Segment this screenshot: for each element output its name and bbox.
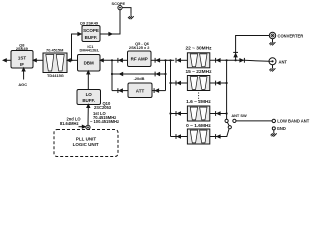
- connector GND: [272, 127, 275, 130]
- svg-text:DM4412EL: DM4412EL: [80, 48, 100, 53]
- wire 2nd LO arrow: [79, 126, 84, 128]
- svg-text:ANT SW: ANT SW: [231, 113, 247, 118]
- switch ANT SW pole: [228, 126, 231, 129]
- diode filter2 right: [216, 81, 221, 86]
- svg-text:1ST: 1ST: [18, 55, 27, 60]
- node V3 f3 junction: [226, 112, 228, 114]
- wire filter4 left: [171, 136, 188, 138]
- arrowhead out left: [2, 58, 7, 62]
- wire filter2 right: [210, 82, 227, 84]
- arrowhead into LO BUFF: [86, 103, 90, 108]
- svg-text:~ 100.4515MHz: ~ 100.4515MHz: [90, 119, 119, 124]
- PLL unit dashed box: [54, 130, 118, 157]
- wire RF amp row right: [151, 59, 166, 61]
- svg-text:PLL UNIT: PLL UNIT: [76, 136, 96, 141]
- svg-text:IF: IF: [20, 62, 24, 67]
- node V1 top junction: [164, 59, 166, 61]
- arrowhead into scope buffer: [77, 32, 82, 36]
- diode to ANT jack: [239, 58, 244, 63]
- svg-text:1.6 ~ 2MHz: 1.6 ~ 2MHz: [186, 99, 211, 105]
- diode filter4 left: [176, 134, 181, 139]
- node V0 top junction: [111, 59, 113, 61]
- amplifier Q8 1ST IF: [11, 51, 33, 69]
- svg-text:Q9 2SK49: Q9 2SK49: [80, 20, 99, 25]
- svg-text:2SK125 x 2: 2SK125 x 2: [129, 45, 150, 50]
- svg-text:BUFF.: BUFF.: [85, 35, 98, 40]
- svg-text:AGC: AGC: [18, 82, 27, 87]
- wire DBM to filter: [69, 59, 78, 61]
- amplifier Q10 LO BUFF: [77, 90, 101, 105]
- wire filter2 left: [171, 82, 188, 84]
- arrowhead bypass row: [118, 72, 123, 76]
- wire omitted filters dotted: [198, 93, 200, 103]
- svg-text:TD4415G: TD4415G: [47, 73, 64, 78]
- diode filter3 right: [216, 111, 221, 116]
- switch ANT SW contact A: [225, 119, 228, 122]
- svg-text:ANT: ANT: [279, 60, 288, 65]
- wire: 1st IF output to left edge: [5, 59, 12, 61]
- diode to converter: [233, 52, 238, 57]
- svg-text:LOW BAND ANT: LOW BAND ANT: [277, 119, 309, 124]
- connector CONVERTER jack: [269, 32, 275, 38]
- wire filter to 1st IF: [35, 59, 44, 61]
- connector ANT jack: [269, 58, 276, 65]
- wire V0 bus DBM to RF amp rows: [102, 60, 113, 90]
- wire ATT row left: [112, 90, 128, 92]
- svg-text:CONVERTER: CONVERTER: [278, 33, 304, 38]
- diode RF amp right: [155, 58, 160, 63]
- connector SCOPE jack: [118, 6, 122, 10]
- wire ANT SW arm: [227, 122, 229, 126]
- ground scope jack: [128, 13, 134, 19]
- node V1 bypass junction: [164, 73, 166, 75]
- wire filter3 left: [171, 113, 188, 115]
- arrowhead LO into DBM: [86, 70, 90, 75]
- node V2 top junction: [169, 59, 171, 61]
- diode RF amp left: [118, 58, 123, 63]
- diode filter2 left: [176, 81, 181, 86]
- svg-text:DBM: DBM: [84, 60, 94, 65]
- svg-text:ATT: ATT: [136, 88, 145, 93]
- node V3 top junction: [226, 59, 228, 61]
- svg-text:22 ~ 30MHz: 22 ~ 30MHz: [186, 46, 213, 52]
- node converter branch junction: [235, 59, 237, 61]
- node V0 bypass junction: [111, 73, 113, 75]
- crystal filter 70.4515M: [43, 53, 67, 73]
- arrowhead toward scope jack: [108, 32, 113, 36]
- diode filter4 right: [216, 134, 221, 139]
- diode filter1 right: [216, 58, 221, 63]
- wire converter branch: [236, 36, 270, 61]
- svg-text:2SC2053: 2SC2053: [94, 105, 112, 110]
- svg-text:81.64MHz: 81.64MHz: [60, 121, 79, 126]
- node scope tap junction: [70, 59, 72, 61]
- svg-text:-20dB: -20dB: [134, 76, 145, 81]
- wire bypass row: [112, 73, 166, 75]
- arrowhead 2nd LO: [82, 125, 87, 129]
- svg-text:2SK49: 2SK49: [16, 46, 29, 51]
- wire scope buffer to scope jack: [100, 10, 120, 34]
- svg-text:0 ~ 1.6MHz: 0 ~ 1.6MHz: [186, 123, 211, 129]
- connector LOW BAND ANT: [272, 119, 275, 122]
- connector PLL output: [86, 125, 90, 129]
- wire V2 filter bus: [170, 60, 172, 136]
- svg-text:GND: GND: [277, 126, 286, 131]
- wire DBM LO input: [87, 73, 89, 90]
- svg-text:SCOPE: SCOPE: [83, 28, 99, 33]
- diode filter3 left: [176, 111, 181, 116]
- node V2 f3 junction: [169, 112, 171, 114]
- bandpass filter 22-30MHz: [187, 53, 209, 68]
- wire filter1 right: [210, 59, 227, 61]
- svg-text:15 ~ 22MHz: 15 ~ 22MHz: [186, 69, 213, 75]
- diode ATT right: [154, 88, 159, 93]
- wire AGC input: [23, 70, 25, 80]
- bandpass filter 15-22MHz: [187, 76, 209, 91]
- svg-text:BUFF.: BUFF.: [82, 98, 95, 103]
- switch ANT SW contact B: [233, 119, 236, 122]
- wire ANT row: [227, 60, 269, 61]
- svg-text:SCOPE: SCOPE: [111, 1, 125, 6]
- amplifier Q9 SCOPE BUFF: [82, 26, 100, 42]
- diode bypass row: [155, 72, 160, 77]
- wire to low band ant: [236, 120, 272, 122]
- arrowhead into 1st IF: [32, 58, 37, 62]
- svg-text:RF AMP: RF AMP: [131, 56, 148, 61]
- arrowhead into DBM: [99, 58, 104, 62]
- bandpass filter 0-1.6MHz: [187, 129, 209, 144]
- wire filter4 right to ant switch: [210, 129, 229, 137]
- ground ANT jack: [269, 65, 275, 72]
- attenuator ATT: [128, 83, 152, 98]
- wire filter3 right: [210, 113, 227, 115]
- svg-text:LOGIC UNIT: LOGIC UNIT: [73, 142, 99, 147]
- amplifier Q5 Q6 RF AMP: [128, 51, 152, 67]
- arrowhead AGC up: [21, 67, 25, 72]
- node V2 f2 junction: [169, 82, 171, 84]
- diode filter1 left: [176, 58, 181, 63]
- wire scope jack shield: [122, 8, 131, 13]
- wire filter1 left: [181, 59, 187, 61]
- node V3 f2 junction: [226, 82, 228, 84]
- mixer IC1 DBM: [78, 55, 101, 72]
- diode ATT left: [118, 88, 123, 93]
- wire RF amp row left: [112, 59, 128, 61]
- bandpass filter 1.6-2MHz: [187, 106, 209, 121]
- svg-text:LO: LO: [86, 92, 93, 97]
- ground GND terminal: [271, 130, 277, 137]
- ground CONVERTER jack: [269, 39, 275, 46]
- arrowhead into filter: [66, 58, 71, 62]
- wire row1 link to filter bank: [166, 59, 175, 61]
- wire PLL to LO BUFF: [87, 106, 89, 126]
- svg-text:70.4515M: 70.4515M: [46, 48, 63, 53]
- wire scope tap up to scope buffer: [72, 34, 80, 60]
- wire V3 bus: [226, 60, 228, 119]
- wire V1 bus: [165, 60, 167, 90]
- wire ATT row right: [152, 90, 166, 92]
